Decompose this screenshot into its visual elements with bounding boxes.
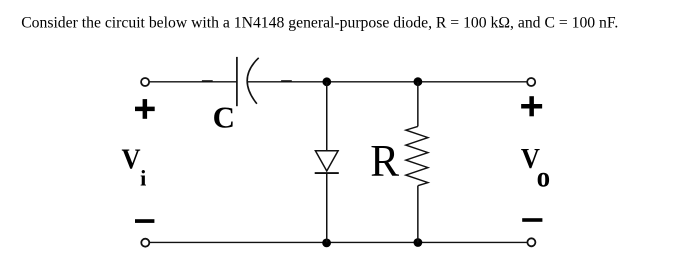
svg-text:C: C xyxy=(213,100,235,135)
capacitor C right curved plate xyxy=(247,58,259,104)
terminal circle output top xyxy=(527,78,535,86)
node junction dot bottom-left xyxy=(322,239,331,248)
svg-text:Consider the circuit below wit: Consider the circuit below with a 1N4148… xyxy=(21,15,618,32)
plus sign output xyxy=(521,96,542,116)
diode D1 cathode bar xyxy=(315,172,339,174)
minus sign input xyxy=(135,219,154,223)
svg-text:i: i xyxy=(140,166,146,191)
wire diode branch upper xyxy=(326,82,328,151)
svg-text:R: R xyxy=(370,135,399,186)
plus sign input xyxy=(135,99,155,119)
wire thick lead dash right of capacitor xyxy=(281,80,292,82)
terminal circle input bottom xyxy=(141,239,149,247)
wire diode branch lower xyxy=(326,173,328,242)
node junction dot top-right xyxy=(414,77,423,86)
wire thick lead dash left of capacitor xyxy=(202,80,213,82)
wire resistor branch upper xyxy=(417,82,419,127)
capacitor C left plate xyxy=(236,57,238,106)
svg-text:V: V xyxy=(122,143,141,175)
minus sign output xyxy=(522,218,542,222)
node junction dot bottom-right xyxy=(414,238,423,247)
wire top-left segment xyxy=(150,81,237,83)
node junction dot top-left xyxy=(322,77,331,86)
terminal circle input top xyxy=(141,78,149,86)
terminal circle output bottom xyxy=(527,238,535,246)
svg-text:o: o xyxy=(537,161,550,194)
wire resistor branch lower xyxy=(417,186,419,243)
resistor R zigzag xyxy=(406,126,428,185)
wire top-right segment xyxy=(248,81,527,83)
wire bottom segment xyxy=(150,241,527,243)
diode D1 triangle xyxy=(315,151,338,171)
